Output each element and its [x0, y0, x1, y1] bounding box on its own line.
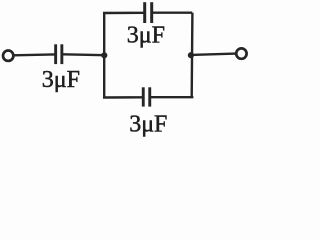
svg-text:3μF: 3μF — [127, 22, 165, 48]
svg-text:3μF: 3μF — [42, 67, 80, 93]
svg-text:3μF: 3μF — [129, 111, 167, 137]
